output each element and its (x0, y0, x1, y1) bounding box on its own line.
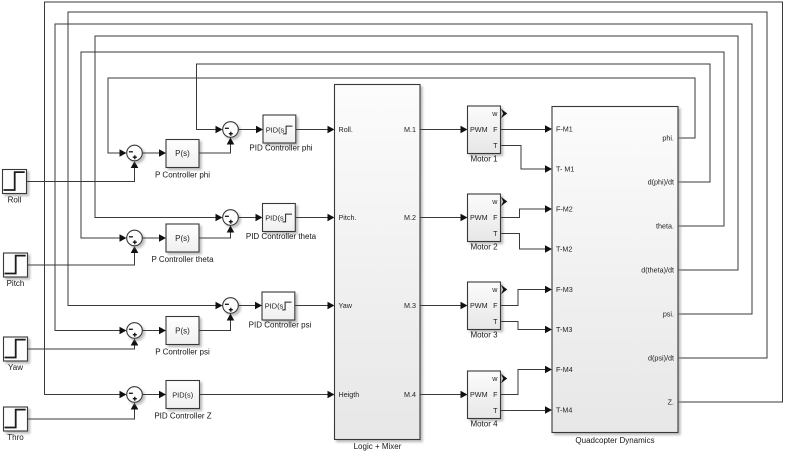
wire d(theta)/dt feedback (to sum S2theta) (95, 36, 738, 270)
quad output port label phi. (662, 134, 674, 143)
wire sum S4 to PID Controller Z (142, 391, 166, 399)
wire mixer M.1 to Motor 1 PWM (420, 126, 468, 134)
wire Motor 2 T to quad T-M2 (501, 234, 553, 253)
subsystem block Motor 4 (468, 371, 501, 429)
svg-text:F-M3: F-M3 (556, 285, 573, 294)
wire Thro step to sum S4 (28, 403, 139, 420)
svg-text:F-M2: F-M2 (556, 205, 573, 214)
svg-text:T- M1: T- M1 (556, 165, 574, 174)
quad input port label T-M3 (556, 325, 572, 334)
wire Motor 4 F to quad F-M4 (501, 366, 553, 395)
quad output port label Z. (668, 398, 674, 407)
PID block PID Controller theta (246, 204, 317, 242)
svg-text:Logic + Mixer: Logic + Mixer (354, 442, 402, 451)
wire theta feedback (to sum S1theta) (81, 52, 724, 242)
svg-text:Motor 3: Motor 3 (470, 331, 498, 340)
sum junction S1 (psi outer loop) (127, 323, 143, 339)
svg-text:PID(s: PID(s (265, 301, 284, 310)
wire sum S2theta to PID Controller theta (238, 214, 262, 222)
svg-text:w: w (491, 109, 498, 118)
mixer input port label Heigth (339, 390, 360, 399)
svg-text:P Controller phi: P Controller phi (155, 171, 210, 180)
svg-text:T: T (493, 406, 498, 415)
svg-text:Quadcopter Dynamics: Quadcopter Dynamics (575, 436, 654, 445)
svg-text:Thro: Thro (7, 433, 24, 442)
svg-text:psi.: psi. (663, 310, 674, 319)
quad output port label d(phi)/dt (648, 178, 674, 187)
svg-text:T-M4: T-M4 (556, 406, 572, 415)
sum junction S1 (theta outer loop) (127, 230, 143, 246)
svg-text:M.1: M.1 (404, 125, 416, 134)
quad input port label T-M4 (556, 406, 572, 415)
wire Motor 3 F to quad F-M3 (501, 286, 553, 306)
wire mixer M.2 to Motor 2 PWM (420, 214, 468, 222)
svg-text:F-M1: F-M1 (556, 125, 573, 134)
svg-text:PWM: PWM (470, 390, 488, 399)
svg-text:Roll.: Roll. (339, 125, 353, 134)
subsystem block Logic + Mixer (335, 85, 421, 452)
svg-text:PID(s): PID(s) (172, 390, 193, 399)
svg-text:Motor 4: Motor 4 (470, 420, 498, 429)
Motor 3 unconnected w output port arrow (501, 285, 507, 294)
svg-text:d(theta)/dt: d(theta)/dt (641, 266, 674, 275)
PID block PID Controller phi (249, 115, 312, 153)
quad input port label F-M2 (556, 205, 573, 214)
wire Motor 3 T to quad T-M3 (501, 322, 553, 334)
wire sum S1phi to P Controller phi (142, 149, 166, 157)
wire mixer M.3 to Motor 3 PWM (420, 302, 468, 310)
svg-text:theta.: theta. (656, 222, 674, 231)
svg-text:P(s): P(s) (175, 149, 190, 158)
wire Roll step to sum S1phi (27, 161, 139, 182)
wire d(phi)/dt feedback (to sum S2phi) (197, 64, 711, 182)
svg-text:T: T (493, 141, 498, 150)
svg-text:Z.: Z. (668, 398, 674, 407)
wire Pitch step to sum S1theta (28, 246, 139, 265)
quad output port label d(psi)/dt (648, 354, 674, 363)
sum junction S2 (psi rate loop) (223, 298, 239, 314)
svg-text:M.3: M.3 (404, 301, 416, 310)
wire sum S1psi to P Controller psi (142, 327, 166, 335)
quad output port label d(theta)/dt (641, 266, 674, 275)
quad input port label T- M1 (556, 165, 574, 174)
wire PID Controller phi to mixer Roll. input (296, 126, 335, 134)
svg-text:w: w (491, 197, 498, 206)
svg-text:T: T (493, 317, 498, 326)
svg-text:Pitch.: Pitch. (339, 213, 357, 222)
wire Motor 4 T to quad T-M4 (501, 406, 553, 414)
svg-text:M.4: M.4 (404, 390, 416, 399)
wire sum S2psi to PID Controller psi (238, 302, 262, 310)
quad input port label F-M4 (556, 365, 573, 374)
Motor 2 unconnected w output port arrow (501, 197, 507, 206)
svg-text:PID(s: PID(s (265, 213, 284, 222)
svg-text:P Controller psi: P Controller psi (155, 348, 210, 357)
sum junction S2 (phi rate loop) (223, 122, 239, 138)
Motor 4 unconnected w output port arrow (501, 374, 507, 383)
svg-text:F: F (493, 213, 498, 222)
wire sum S1theta to P Controller theta (142, 234, 166, 242)
svg-text:PWM: PWM (470, 125, 488, 134)
svg-text:PID Controller psi: PID Controller psi (249, 321, 312, 330)
svg-text:P(s): P(s) (175, 327, 190, 336)
svg-text:PID Controller theta: PID Controller theta (246, 232, 317, 241)
wire P Controller theta to sum S2theta (199, 226, 234, 239)
PID block PID Controller psi (249, 292, 312, 330)
mixer input port label Pitch. (339, 213, 357, 222)
wire PID Controller Z to mixer Heigth input (200, 391, 335, 399)
sum junction S1 (phi outer loop) (127, 145, 143, 161)
svg-text:Motor 2: Motor 2 (470, 243, 498, 252)
PID block PID Controller Z (154, 381, 211, 421)
P(s) block P Controller phi (155, 140, 210, 180)
wire PID Controller psi to mixer Yaw input (295, 302, 335, 310)
wire Yaw step to sum S1psi (28, 339, 139, 350)
wire P Controller phi to sum S2phi (199, 138, 234, 154)
quad output port label theta. (656, 222, 674, 231)
svg-text:d(phi)/dt: d(phi)/dt (648, 178, 674, 187)
quad input port label F-M1 (556, 125, 573, 134)
wire d(psi)/dt feedback (to sum S2psi) (68, 12, 767, 358)
svg-text:Motor 1: Motor 1 (470, 155, 498, 164)
mixer input port label Roll. (339, 125, 353, 134)
wire phi feedback (quad phi. to sum S1phi) (108, 78, 695, 157)
quad output port label psi. (663, 310, 674, 319)
mixer output port label M.3 (404, 301, 416, 310)
quad input port label F-M3 (556, 285, 573, 294)
subsystem block Motor 1 (468, 106, 501, 164)
svg-text:Yaw: Yaw (339, 301, 353, 310)
step source block Roll (3, 170, 27, 205)
svg-text:P(s): P(s) (175, 234, 190, 243)
svg-text:Heigth: Heigth (339, 390, 360, 399)
svg-text:T-M2: T-M2 (556, 245, 572, 254)
svg-text:phi.: phi. (662, 134, 674, 143)
P(s) block P Controller psi (155, 317, 210, 357)
wire psi feedback (to sum S1psi) (55, 24, 752, 334)
svg-text:F: F (493, 301, 498, 310)
wire sum S2phi to PID Controller phi (238, 126, 263, 134)
subsystem block Motor 3 (468, 282, 501, 340)
wire P Controller psi to sum S2psi (199, 314, 234, 331)
svg-text:w: w (491, 374, 498, 383)
svg-text:PID Controller phi: PID Controller phi (249, 144, 312, 153)
svg-text:PID Controller Z: PID Controller Z (154, 412, 211, 421)
step source block Thro (4, 407, 28, 442)
sum junction S4 (height loop) (127, 387, 143, 403)
svg-text:w: w (491, 285, 498, 294)
wire Motor 2 F to quad F-M2 (501, 205, 553, 217)
svg-text:M.2: M.2 (404, 213, 416, 222)
svg-text:PWM: PWM (470, 301, 488, 310)
svg-text:PID(s: PID(s (266, 125, 285, 134)
svg-text:PWM: PWM (470, 213, 488, 222)
subsystem block Motor 2 (468, 194, 501, 252)
sum junction S2 (theta rate loop) (223, 210, 239, 226)
subsystem block Quadcopter Dynamics (552, 107, 678, 446)
wire Motor 1 T to quad T-M1 (501, 146, 553, 173)
quad input port label T-M2 (556, 245, 572, 254)
Motor 1 unconnected w output port arrow (501, 109, 507, 118)
mixer input port label Yaw (339, 301, 353, 310)
wire PID Controller theta to mixer Pitch. input (295, 214, 334, 222)
mixer output port label M.4 (404, 390, 416, 399)
svg-text:F: F (493, 390, 498, 399)
mixer output port label M.1 (404, 125, 416, 134)
svg-text:Pitch: Pitch (7, 279, 25, 288)
svg-text:d(psi)/dt: d(psi)/dt (648, 354, 674, 363)
svg-text:Yaw: Yaw (8, 363, 23, 372)
mixer output port label M.2 (404, 213, 416, 222)
step source block Yaw (4, 337, 28, 372)
svg-text:P Controller theta: P Controller theta (151, 255, 214, 264)
svg-text:Roll: Roll (8, 196, 22, 205)
P(s) block P Controller theta (151, 224, 214, 264)
svg-text:T: T (493, 229, 498, 238)
step source block Pitch (4, 253, 28, 288)
svg-text:F: F (493, 125, 498, 134)
wire mixer M.4 to Motor 4 PWM (420, 391, 468, 399)
wire Motor 1 F to quad F-M1 (501, 125, 553, 133)
svg-text:T-M3: T-M3 (556, 325, 572, 334)
svg-text:F-M4: F-M4 (556, 365, 573, 374)
